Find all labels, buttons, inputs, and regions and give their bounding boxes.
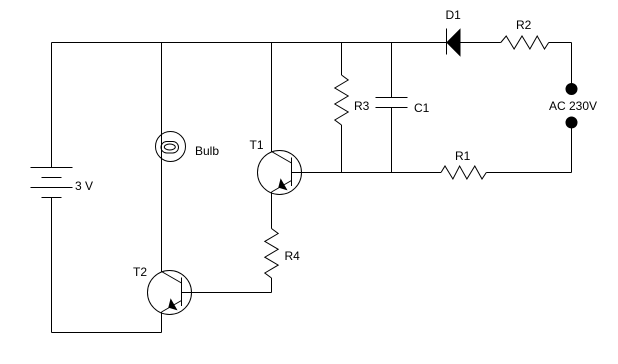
svg-text:R3: R3 xyxy=(354,99,370,113)
wire T1 base to R1 xyxy=(292,172,442,174)
transistor T2 xyxy=(148,271,192,315)
wire bottom rail xyxy=(52,332,162,334)
wire R3 branch lower xyxy=(341,125,343,173)
resistor R1 xyxy=(441,166,486,179)
terminal AC top xyxy=(566,84,577,95)
wire R3 branch upper xyxy=(341,43,343,76)
wire C1 branch lower xyxy=(391,108,393,173)
svg-text:Bulb: Bulb xyxy=(195,144,219,158)
wire T2 base horizontal xyxy=(182,292,272,294)
battery B1 3V xyxy=(31,168,73,198)
svg-text:T2: T2 xyxy=(133,265,147,279)
wire C1 branch upper xyxy=(391,43,393,98)
svg-text:R1: R1 xyxy=(455,149,471,163)
wire battery branch lower xyxy=(51,198,53,333)
resistor R2 xyxy=(501,36,549,49)
resistor R3 xyxy=(335,75,348,125)
bulb lamp symbol xyxy=(156,132,186,162)
wire battery branch upper xyxy=(51,43,53,168)
wire right vertical lower xyxy=(571,123,573,173)
svg-text:R4: R4 xyxy=(285,249,301,263)
svg-text:D1: D1 xyxy=(446,8,462,22)
svg-text:R2: R2 xyxy=(516,18,532,32)
terminal AC bottom xyxy=(566,117,577,128)
wire bulb/T2 branch vertical xyxy=(161,43,163,272)
wire D1 to R2 xyxy=(460,42,501,44)
transistor T1 xyxy=(258,151,302,195)
svg-text:3 V: 3 V xyxy=(75,179,93,193)
wire T1 emitter to R4 xyxy=(271,192,273,229)
resistor R4 xyxy=(265,229,278,279)
wire T1 collector vertical xyxy=(271,43,273,152)
diode D1 xyxy=(447,29,461,56)
wire R2 to corner xyxy=(549,42,572,44)
wire top rail xyxy=(52,42,447,44)
wire R4 bottom vertical xyxy=(271,278,273,293)
wire T2 emitter vertical xyxy=(161,312,163,333)
wire right vertical upper xyxy=(571,43,573,90)
svg-text:C1: C1 xyxy=(414,101,430,115)
svg-text:T1: T1 xyxy=(250,138,264,152)
wire R1 to right corner xyxy=(486,172,571,174)
capacitor C1 xyxy=(376,98,408,108)
svg-text:AC 230V: AC 230V xyxy=(549,99,597,113)
